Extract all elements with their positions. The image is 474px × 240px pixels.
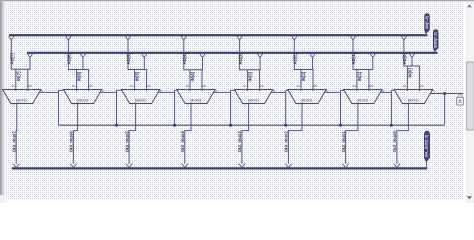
wire: bus SHL to output pin xyxy=(426,161,428,169)
wire: input bar to mux U2 xyxy=(68,69,89,71)
pin label D1 of U7 xyxy=(353,84,357,88)
wire SHIN[3] vertical xyxy=(259,57,261,69)
wire: select S into U3 left side xyxy=(117,89,122,91)
label AD[6] xyxy=(67,53,72,65)
wire: input bar to mux U4 xyxy=(183,69,203,71)
wire: D1 stub of U4 xyxy=(189,70,191,91)
label OUT_mux4 xyxy=(180,131,185,153)
wire: D0 stub of U3 xyxy=(146,70,148,92)
bus AD[7..0] (top data bus) xyxy=(9,34,428,36)
wire: D0 stub of U1 xyxy=(27,69,29,91)
svg-text:D1: D1 xyxy=(186,84,190,88)
wire: input bar to mux U6 xyxy=(294,69,314,71)
svg-text:Y: Y xyxy=(13,104,15,108)
node AD[3] tap arrow on AD bus xyxy=(237,36,242,40)
pin label S of U3 xyxy=(160,89,162,93)
wire AD[5] vertical xyxy=(127,40,129,70)
svg-text:MUX21: MUX21 xyxy=(301,98,312,102)
label AD[0] xyxy=(402,53,407,65)
wire AD[3] vertical xyxy=(239,40,241,70)
wire: select S from U3 right side xyxy=(158,91,175,93)
svg-text:AD[6]: AD[6] xyxy=(67,53,72,65)
wire: select S from U2 right side xyxy=(100,91,117,93)
pin label D1 of U4 xyxy=(186,84,190,88)
wire: select S into U4 left side xyxy=(175,89,178,91)
svg-text:Y: Y xyxy=(73,104,75,108)
svg-text:AD[3]: AD[3] xyxy=(238,53,243,65)
label AD[7] xyxy=(10,53,15,65)
svg-text:IN[1]: IN[1] xyxy=(357,71,362,81)
pin label D0 of U8 xyxy=(420,84,424,88)
wire: select S from U8 right side xyxy=(430,93,463,95)
label SHIN[4] xyxy=(190,71,195,81)
svg-text:D0: D0 xyxy=(260,84,264,88)
svg-text:MUX21: MUX21 xyxy=(16,98,27,102)
svg-text:S: S xyxy=(102,89,104,93)
label OUT_mux5 xyxy=(124,131,129,153)
svg-text:MUX21: MUX21 xyxy=(135,98,146,102)
wire: select drop between U6 and U7 xyxy=(340,90,342,125)
wire SHIN[4] vertical xyxy=(202,57,204,69)
wire: U2 output Y down to SHL bus xyxy=(73,102,78,164)
node AD[1] tap arrow on AD bus xyxy=(350,36,355,40)
svg-text:Y: Y xyxy=(244,104,246,108)
wire: U8 output Y down to SHL bus xyxy=(396,102,409,164)
node SHIN[6] tap arrow on SHIN bus xyxy=(80,54,85,58)
svg-text:D1: D1 xyxy=(403,84,407,88)
mux U4 MUX21 xyxy=(177,90,215,104)
label SHIN[7] xyxy=(16,71,21,81)
node OUT_mux1 arrow into SHL bus xyxy=(342,164,348,168)
wire AD[7] vertical xyxy=(10,40,12,70)
svg-text:S: S xyxy=(160,89,162,93)
svg-text:D1: D1 xyxy=(12,84,16,88)
label AD[1] xyxy=(351,53,356,65)
label SHIN[5] xyxy=(135,71,140,81)
svg-text:IN[7]: IN[7] xyxy=(16,71,21,81)
svg-text:AD[1]: AD[1] xyxy=(351,53,356,65)
pin label D0 of U3 xyxy=(147,84,151,88)
bus SHIN[7..0] (second data bus) xyxy=(27,52,438,54)
wire: select S into U5 left side xyxy=(231,89,235,91)
pin label S of U2 xyxy=(102,89,104,93)
svg-text:S: S xyxy=(273,89,275,93)
wire: select drop right of U8 xyxy=(444,94,446,126)
svg-text:D0: D0 xyxy=(203,84,207,88)
svg-text:D0: D0 xyxy=(147,84,151,88)
wire: D1 stub of U7 xyxy=(356,70,358,92)
svg-text:Out_mux2: Out_mux2 xyxy=(284,131,289,153)
wire: select S from U1 right side xyxy=(39,91,58,93)
node OUT_mux0 arrow into SHL bus xyxy=(394,164,400,168)
svg-text:D0: D0 xyxy=(28,84,32,88)
cursor tag icon xyxy=(457,94,464,105)
svg-text:Y: Y xyxy=(187,104,189,108)
wire: input bar to mux U7 xyxy=(353,69,374,71)
svg-text:D1: D1 xyxy=(130,84,134,88)
node SHIN[3] tap arrow on SHIN bus xyxy=(258,54,263,58)
label SHIN[0] xyxy=(407,68,412,78)
output pin SHL[7..0] xyxy=(424,131,429,162)
label OUT_mux7 xyxy=(11,131,16,153)
net SEL (common select line) xyxy=(59,124,445,126)
svg-text:D0: D0 xyxy=(89,84,93,88)
wire: D0 stub of U5 xyxy=(259,70,261,91)
mux U5 MUX21 xyxy=(234,90,272,104)
node OUT_mux5 arrow into SHL bus xyxy=(126,164,132,168)
pin label D1 of U5 xyxy=(243,84,247,88)
wire AD[2] vertical xyxy=(293,40,295,70)
mux U2 MUX21 xyxy=(63,90,101,104)
svg-text:D0: D0 xyxy=(420,84,424,88)
label AD[5] xyxy=(126,53,131,65)
node SHIN[5] tap arrow on SHIN bus xyxy=(142,54,147,58)
wire: D0 stub of U8 xyxy=(418,66,420,91)
pin label D0 of U1 xyxy=(28,84,32,88)
svg-text:AD[7]: AD[7] xyxy=(10,53,15,65)
svg-text:D1: D1 xyxy=(243,84,247,88)
wire: input bar to mux U1 xyxy=(11,68,31,70)
svg-text:IN[4]: IN[4] xyxy=(190,71,195,81)
pin label S of U4 xyxy=(215,89,217,93)
svg-text:D1: D1 xyxy=(353,84,357,88)
node OUT_mux2 arrow into SHL bus xyxy=(285,164,291,168)
pin label D0 of U5 xyxy=(260,84,264,88)
svg-text:Out_mux4: Out_mux4 xyxy=(180,131,185,153)
wire: select S into U8 left side xyxy=(391,89,394,91)
mux U3 MUX21 xyxy=(121,90,159,104)
svg-text:AD[0]: AD[0] xyxy=(402,53,407,65)
node OUT_mux6 arrow into SHL bus xyxy=(70,164,76,168)
label AD[3] xyxy=(238,53,243,65)
svg-text:MUX21: MUX21 xyxy=(357,98,368,102)
pin label Y of U7 xyxy=(354,104,356,108)
pin label S of U7 xyxy=(382,89,384,93)
wire: D1 stub of U3 xyxy=(134,70,136,92)
pin label Y of U6 xyxy=(298,104,300,108)
wire: input bar to mux U8 xyxy=(403,65,420,67)
wire: select drop between U1 and U2 xyxy=(58,90,60,125)
svg-text:S: S xyxy=(215,89,217,93)
svg-text:AD[5]: AD[5] xyxy=(126,53,131,65)
mux U8 MUX21 xyxy=(394,90,432,104)
wire: D1 stub of U8 xyxy=(406,66,408,91)
svg-text:D0: D0 xyxy=(370,84,374,88)
node SHIN[4] tap arrow on SHIN bus xyxy=(200,54,205,58)
pin label D0 of U7 xyxy=(370,84,374,88)
label SHIN[3] xyxy=(248,71,253,81)
wire: D1 stub of U6 xyxy=(300,70,302,92)
pin label Y of U2 xyxy=(73,104,75,108)
wire SHIN[7] vertical xyxy=(29,57,31,69)
svg-text:D1: D1 xyxy=(72,84,76,88)
left panel edge strip xyxy=(0,1,5,203)
svg-text:MUX21: MUX21 xyxy=(248,98,259,102)
wire: select drop between U2 and U3 xyxy=(116,90,118,125)
wire: select S into U6 left side xyxy=(286,89,289,91)
pin label S of U8 xyxy=(433,89,435,93)
input pin AD[7..0] xyxy=(425,14,430,34)
wire: select S into U7 left side xyxy=(341,89,345,91)
node AD[6] tap arrow on AD bus xyxy=(66,36,71,40)
label AD[2] xyxy=(293,53,298,65)
svg-text:AD[7..0]: AD[7..0] xyxy=(425,16,429,28)
svg-text:SHIN[7..0]: SHIN[7..0] xyxy=(434,32,438,48)
wire: select drop between U3 and U4 xyxy=(174,90,176,125)
wire: U6 output Y down to SHL bus xyxy=(288,102,303,164)
svg-text:Y: Y xyxy=(298,104,300,108)
label OUT_mux1 xyxy=(341,131,346,153)
pin label D1 of U1 xyxy=(12,84,16,88)
pin label D0 of U4 xyxy=(203,84,207,88)
pin label D0 of U6 xyxy=(314,84,318,88)
pin label Y of U8 xyxy=(404,104,406,108)
label SHIN[2] xyxy=(301,71,306,81)
svg-text:IN[3]: IN[3] xyxy=(248,71,253,81)
svg-text:Out_mux5: Out_mux5 xyxy=(124,131,129,153)
svg-text:IN[6]: IN[6] xyxy=(77,71,82,81)
wire: D1 stub of U1 xyxy=(15,69,17,91)
pin label D0 of U2 xyxy=(89,84,93,88)
svg-text:S: S xyxy=(433,89,435,93)
junction on SEL at x=340.5 xyxy=(339,124,342,127)
svg-text:MUX21: MUX21 xyxy=(190,98,201,102)
wire: D0 stub of U4 xyxy=(201,70,203,91)
node SHIN[7] tap arrow on SHIN bus xyxy=(27,54,32,58)
node AD[5] tap arrow on AD bus xyxy=(125,36,130,40)
wire: select S from U6 right side xyxy=(324,91,340,93)
label SHIN[1] xyxy=(357,71,362,81)
svg-text:SHL_OUT[7..0]: SHL_OUT[7..0] xyxy=(424,135,428,157)
bus SHL[7..0] (bottom output bus) xyxy=(12,167,428,169)
pin label S of U6 xyxy=(326,89,328,93)
label OUT_mux2 xyxy=(284,131,289,153)
node AD[2] tap arrow on AD bus xyxy=(292,36,297,40)
wire: select drop between U4 and U5 xyxy=(230,90,232,125)
junction on SEL at x=174.6 xyxy=(173,124,176,127)
wire SHIN[5] vertical xyxy=(143,57,145,69)
wire: D0 stub of U6 xyxy=(312,70,314,92)
label AD[4] xyxy=(182,53,187,65)
wire: D0 stub of U7 xyxy=(368,70,370,92)
junction on SEL at x=230.6 xyxy=(229,124,232,127)
wire AD[0] vertical xyxy=(403,40,405,66)
wire: U5 output Y down to SHL bus xyxy=(241,102,249,164)
wire AD[6] vertical xyxy=(67,40,69,70)
node SHIN[1] tap arrow on SHIN bus xyxy=(370,54,375,58)
node OUT_mux4 arrow into SHL bus xyxy=(182,164,188,168)
junction on SEL at x=391.4 xyxy=(390,124,393,127)
wire: U1 output Y down to SHL bus xyxy=(16,102,18,164)
wire SHIN[6] vertical xyxy=(82,57,84,69)
node AD[4] tap arrow on AD bus xyxy=(181,36,186,40)
wire AD[1] vertical xyxy=(352,40,354,70)
pin label Y of U5 xyxy=(244,104,246,108)
label OUT_mux3 xyxy=(237,131,242,153)
wire: U4 output Y down to SHL bus xyxy=(184,102,191,164)
svg-text:AD[4]: AD[4] xyxy=(182,53,187,65)
input pin SHIN[7..0] xyxy=(433,30,438,52)
mux U1 MUX21 xyxy=(3,90,41,104)
wire SHIN[1] vertical xyxy=(372,57,374,69)
svg-text:Y: Y xyxy=(131,104,133,108)
vertical scrollbar xyxy=(464,1,474,203)
pin label D1 of U2 xyxy=(72,84,76,88)
wire: select S from U5 right side xyxy=(271,91,286,93)
mux U6 MUX21 xyxy=(288,90,326,104)
wire: input bar to mux U5 xyxy=(239,69,261,71)
junction on SEL at x=285.7 xyxy=(284,124,287,127)
svg-text:Out_mux1: Out_mux1 xyxy=(341,131,346,153)
label OUT_mux6 xyxy=(69,131,74,153)
wire: select S from U7 right side xyxy=(380,91,391,93)
pin label S of U5 xyxy=(273,89,275,93)
wire: U7 output Y down to SHL bus xyxy=(345,102,358,164)
wire AD[4] vertical xyxy=(183,40,185,70)
pin label Y of U3 xyxy=(131,104,133,108)
wire: input bar to mux U3 xyxy=(128,69,148,71)
svg-text:IN[0]: IN[0] xyxy=(407,68,412,78)
svg-text:Out_mux6: Out_mux6 xyxy=(69,131,74,153)
node SHIN[0] tap arrow on SHIN bus xyxy=(409,54,414,58)
svg-text:S: S xyxy=(41,89,43,93)
node SHIN[2] tap arrow on SHIN bus xyxy=(310,54,315,58)
node OUT_mux7 arrow into SHL bus xyxy=(13,164,19,168)
svg-text:S: S xyxy=(326,89,328,93)
label OUT_mux0 xyxy=(392,131,397,153)
pin label Y of U4 xyxy=(187,104,189,108)
pin label D1 of U6 xyxy=(297,84,301,88)
wire: D0 stub of U2 xyxy=(88,70,90,92)
svg-text:MUX21: MUX21 xyxy=(408,98,419,102)
bottom canvas margin xyxy=(5,199,465,203)
node AD[0] tap arrow on AD bus xyxy=(401,36,406,40)
svg-text:IN[5]: IN[5] xyxy=(135,71,140,81)
window top edge xyxy=(0,0,474,3)
wire: select S into U2 left side xyxy=(59,89,64,91)
wire: pin AD to bus xyxy=(425,33,427,36)
svg-text:Out_mux3: Out_mux3 xyxy=(237,131,242,153)
pin label D1 of U8 xyxy=(403,84,407,88)
wire: select S from U4 right side xyxy=(213,91,230,93)
wire SHIN[2] vertical xyxy=(312,57,314,69)
wire: pin SHIN to bus xyxy=(434,51,436,54)
svg-text:D1: D1 xyxy=(297,84,301,88)
wire: D1 stub of U2 xyxy=(76,70,78,92)
pin label D1 of U3 xyxy=(130,84,134,88)
wire: D1 stub of U5 xyxy=(247,70,249,91)
pin label S of U1 xyxy=(41,89,43,93)
svg-text:Y: Y xyxy=(354,104,356,108)
junction on select wire at x=444.6 xyxy=(443,92,446,95)
svg-text:AD[2]: AD[2] xyxy=(293,53,298,65)
pin label Y of U1 xyxy=(13,104,15,108)
wire: select drop between U5 and U6 xyxy=(285,90,287,125)
junction on SEL at x=116.5 xyxy=(115,124,118,127)
svg-text:MUX21: MUX21 xyxy=(77,98,88,102)
wire: U3 output Y down to SHL bus xyxy=(129,102,137,164)
wire: select drop between U7 and U8 xyxy=(390,90,392,125)
svg-text:D0: D0 xyxy=(314,84,318,88)
svg-text:Y: Y xyxy=(404,104,406,108)
svg-text:S: S xyxy=(382,89,384,93)
label SHIN[6] xyxy=(77,71,82,81)
mux U7 MUX21 xyxy=(344,90,382,104)
svg-text:Out_mux0: Out_mux0 xyxy=(392,131,397,153)
node OUT_mux3 arrow into SHL bus xyxy=(239,164,245,168)
svg-text:Out_mux7: Out_mux7 xyxy=(11,131,16,153)
svg-text:IN[2]: IN[2] xyxy=(301,71,306,81)
wire SHIN[0] vertical xyxy=(411,57,413,66)
node AD[7] tap arrow on AD bus xyxy=(9,36,14,40)
